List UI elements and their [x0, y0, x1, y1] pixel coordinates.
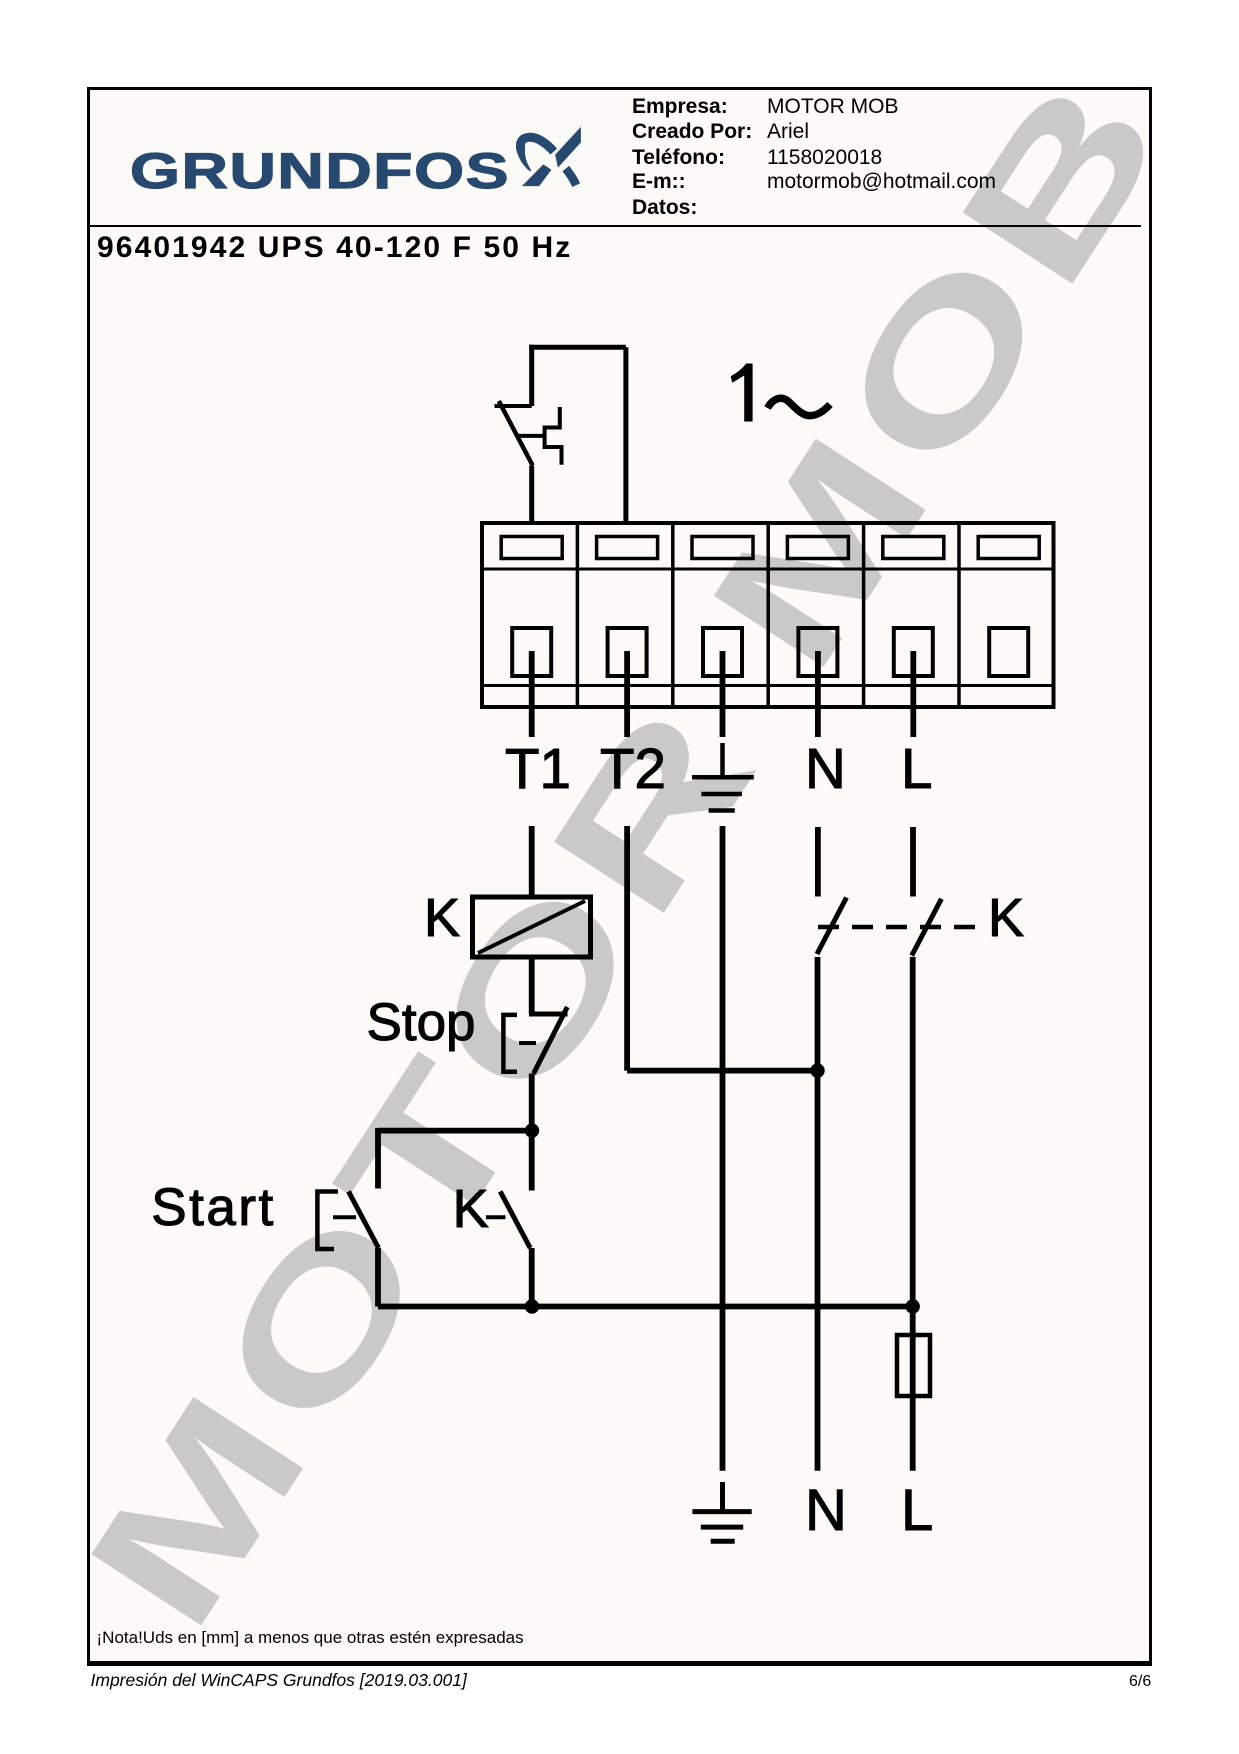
thermal switch stub — [495, 404, 532, 408]
wire L lower — [910, 957, 916, 1471]
terminal block divider 1 — [576, 523, 580, 707]
terminal screw box 1 — [512, 628, 551, 676]
K aux contact diagonal arm — [500, 1191, 530, 1248]
terminal block top band line — [482, 568, 1054, 571]
stop button bracket — [503, 1015, 517, 1072]
title — [97, 233, 572, 263]
label Start — [151, 1181, 275, 1234]
thermal switch loop: left wire — [529, 345, 534, 406]
wire N upper — [815, 827, 821, 897]
earth symbol bottom: bar 2 — [701, 1525, 743, 1530]
label K right contacts — [988, 891, 1024, 945]
header label Empresa — [632, 96, 728, 117]
terminal screw box 2 — [608, 628, 647, 676]
terminal screw box 4 — [798, 628, 837, 676]
start lower wire — [375, 1248, 381, 1307]
start link dash — [333, 1215, 356, 1219]
label N top — [805, 741, 846, 798]
small terminal window 5 — [883, 537, 944, 559]
header label Telefono — [632, 147, 725, 168]
wire stub L — [910, 651, 916, 737]
header label Datos — [632, 197, 697, 218]
wire N lower — [815, 957, 821, 1471]
junction dot bottom left — [525, 1299, 539, 1313]
frame border — [87, 87, 1152, 1666]
wire stub earth — [720, 651, 726, 737]
header value Empresa — [767, 96, 898, 117]
wire T1 down to coil — [529, 826, 535, 897]
label L bottom — [901, 1482, 933, 1540]
junction dot stop/start — [525, 1123, 539, 1137]
earth symbol top: bar 2 — [701, 792, 742, 797]
thermal trip zigzag — [545, 407, 562, 465]
relay coil K rectangle — [473, 897, 591, 957]
earth symbol top: bar 3 — [709, 808, 735, 813]
K contacts dashed link — [818, 925, 975, 930]
stop contact top bar — [529, 1012, 568, 1017]
relay coil diagonal — [478, 901, 585, 953]
label K coil — [424, 891, 460, 945]
start button bracket — [317, 1192, 338, 1250]
label K aux contact — [453, 1182, 489, 1236]
wire T2 vertical — [624, 826, 630, 1071]
terminal screw box 6 — [989, 628, 1028, 676]
small terminal window 6 — [978, 537, 1039, 559]
header value Telefono — [767, 147, 882, 168]
logo check stroke — [555, 127, 581, 168]
terminal screw box 3 — [703, 628, 742, 676]
logo ellipse main arc — [520, 137, 553, 151]
start contact diagonal arm — [349, 1191, 379, 1248]
header label E-m — [632, 171, 686, 192]
wire T2 horizontal to N — [627, 1068, 817, 1074]
note — [97, 1629, 524, 1646]
logo lower-left diagonal — [522, 164, 552, 186]
thermal switch loop: right wire — [623, 347, 628, 523]
terminal screw box 5 — [894, 628, 933, 676]
label T1 — [505, 741, 571, 798]
small terminal window 2 — [597, 537, 658, 559]
thermal switch loop: top wire — [529, 345, 626, 350]
footer left — [91, 1672, 467, 1690]
thermal link line — [517, 434, 543, 438]
tilde of 1~ — [768, 398, 831, 415]
terminal block outer — [482, 523, 1054, 707]
small terminal window 1 — [501, 537, 562, 559]
GRUNDFOS logo wordmark — [130, 146, 510, 196]
earth symbol bottom: stem — [720, 1482, 725, 1511]
footer page number — [1129, 1674, 1151, 1690]
terminal block divider 2 — [671, 523, 675, 707]
header value Creado Por — [767, 121, 809, 142]
thermal switch diagonal arm — [499, 401, 533, 466]
earth symbol bottom: bar 1 — [692, 1509, 751, 1514]
earth symbol top: bar 1 — [692, 775, 754, 780]
wire stub T1 — [529, 651, 535, 737]
wire stub N — [815, 651, 821, 737]
fuse rectangle — [897, 1335, 930, 1396]
logo ellipse left limb — [516, 148, 531, 172]
terminal block divider 4 — [862, 523, 866, 707]
earth long wire — [720, 826, 726, 1471]
bottom rail wire — [378, 1304, 913, 1310]
header label Creado Por — [632, 121, 752, 142]
branch wire left vertical — [375, 1128, 381, 1189]
label 1 of 1~ — [731, 364, 753, 422]
earth symbol bottom: bar 3 — [711, 1539, 735, 1544]
label N bottom — [805, 1482, 847, 1540]
junction dot T2/N — [810, 1063, 824, 1077]
small terminal window 3 — [692, 537, 753, 559]
wire L upper — [910, 827, 916, 897]
GRUNDFOS logo X mark — [0, 0, 1239, 300]
K aux link dash — [486, 1215, 506, 1219]
terminal block divider 3 — [766, 523, 770, 707]
stop contact diagonal arm — [534, 1007, 568, 1074]
header rule — [89, 225, 1141, 228]
thermal switch lower wire — [529, 466, 534, 523]
K contact N diagonal — [817, 898, 847, 955]
label T2 — [600, 741, 666, 798]
header value E-m — [767, 171, 996, 192]
terminal block divider 5 — [957, 523, 961, 707]
branch wire horizontal — [378, 1128, 533, 1134]
wire coil to stop — [529, 957, 535, 1014]
small terminal window 4 — [787, 537, 848, 559]
terminal block bottom strip line — [482, 684, 1054, 687]
wire stub T2 — [624, 651, 630, 737]
junction dot bottom right — [906, 1299, 920, 1313]
stop link dash — [519, 1041, 536, 1045]
K contact L diagonal — [912, 899, 942, 956]
logo ellipse lower-right arc — [566, 169, 576, 186]
wire stop to start branch — [529, 1074, 535, 1191]
label L top — [901, 741, 932, 798]
label Stop — [367, 996, 476, 1049]
earth symbol top: stem — [720, 743, 725, 775]
K aux lower wire — [529, 1248, 535, 1307]
